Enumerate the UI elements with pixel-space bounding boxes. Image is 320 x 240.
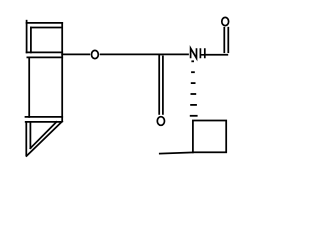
cage square bottom edge bbox=[27, 51, 63, 53]
cage rectangle left edge bbox=[28, 57, 30, 117]
formyl O label bbox=[222, 17, 229, 25]
cage triangle top edge bbox=[26, 121, 61, 123]
carbonyl C=O double bond line 1 bbox=[158, 55, 160, 114]
formyl C=O double bond line 2 bbox=[227, 28, 229, 53]
cage right vertical wire bbox=[61, 23, 63, 122]
cage square left inner line bbox=[30, 28, 32, 53]
NH label bbox=[191, 48, 205, 58]
cage square top outer edge bbox=[27, 22, 63, 24]
methyl bond bbox=[160, 152, 193, 153]
bond ester O to carbonyl C bbox=[101, 53, 162, 55]
cage rectangle top edge bbox=[27, 56, 62, 58]
cage triangle left inner line bbox=[29, 122, 31, 148]
bond NH to formyl C bbox=[205, 54, 228, 56]
cage triangle hypotenuse inner bbox=[30, 122, 56, 148]
formyl C=O double bond line 1 bbox=[223, 28, 225, 53]
cage triangle left outer edge bbox=[25, 122, 27, 156]
cage rectangle bottom edge bbox=[26, 116, 63, 118]
cage square top inner line bbox=[31, 27, 61, 29]
hash wedge bond (dashes) bbox=[190, 60, 198, 116]
cage triangle hypotenuse outer bbox=[27, 121, 63, 156]
cage square left outer edge bbox=[26, 21, 28, 53]
cyclobutane ring bbox=[193, 121, 226, 153]
bond cage to ester O bbox=[62, 53, 89, 55]
ester O label bbox=[92, 50, 99, 58]
bond carbonyl C to NH bbox=[161, 53, 188, 55]
carbonyl C=O double bond line 2 bbox=[162, 56, 164, 114]
carbonyl O label bbox=[157, 117, 164, 126]
